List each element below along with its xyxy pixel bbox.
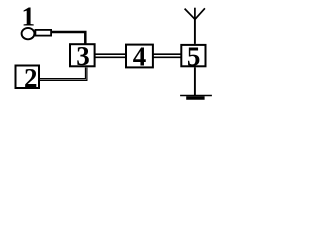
wire box 4 to box 5 (double line, upper): [153, 53, 181, 55]
svg-text:2: 2: [24, 63, 38, 93]
box 2: [16, 66, 40, 89]
box 3: [70, 44, 95, 66]
wire box 3 to box 4 (double line, upper): [95, 53, 126, 55]
microphone 1 circle: [22, 28, 35, 39]
wire microphone to box 3: [52, 32, 86, 44]
wire box 2 to box 3 (double line, inner run): [40, 68, 86, 79]
microphone 1 body rectangle: [35, 30, 51, 36]
antenna symbol middle prong: [194, 8, 196, 20]
wire box 4 to box 5 (double line, lower): [153, 56, 181, 58]
wire box 3 to box 4 (double line, lower): [95, 56, 126, 58]
antenna lead wire (box 5 top to antenna): [194, 19, 196, 44]
ground symbol thin wide bar: [180, 95, 212, 97]
wire box 2 to box 3 (double line, outer run): [40, 68, 87, 81]
ground lead wire (box 5 bottom to ground): [194, 67, 196, 95]
antenna symbol right branch: [195, 8, 205, 19]
box 4: [126, 45, 153, 68]
svg-text:5: 5: [187, 41, 201, 71]
box 5: [181, 45, 205, 66]
ground symbol thick short bar: [186, 96, 204, 100]
svg-text:4: 4: [133, 41, 147, 71]
antenna symbol left branch: [185, 9, 195, 20]
svg-text:3: 3: [76, 41, 90, 71]
